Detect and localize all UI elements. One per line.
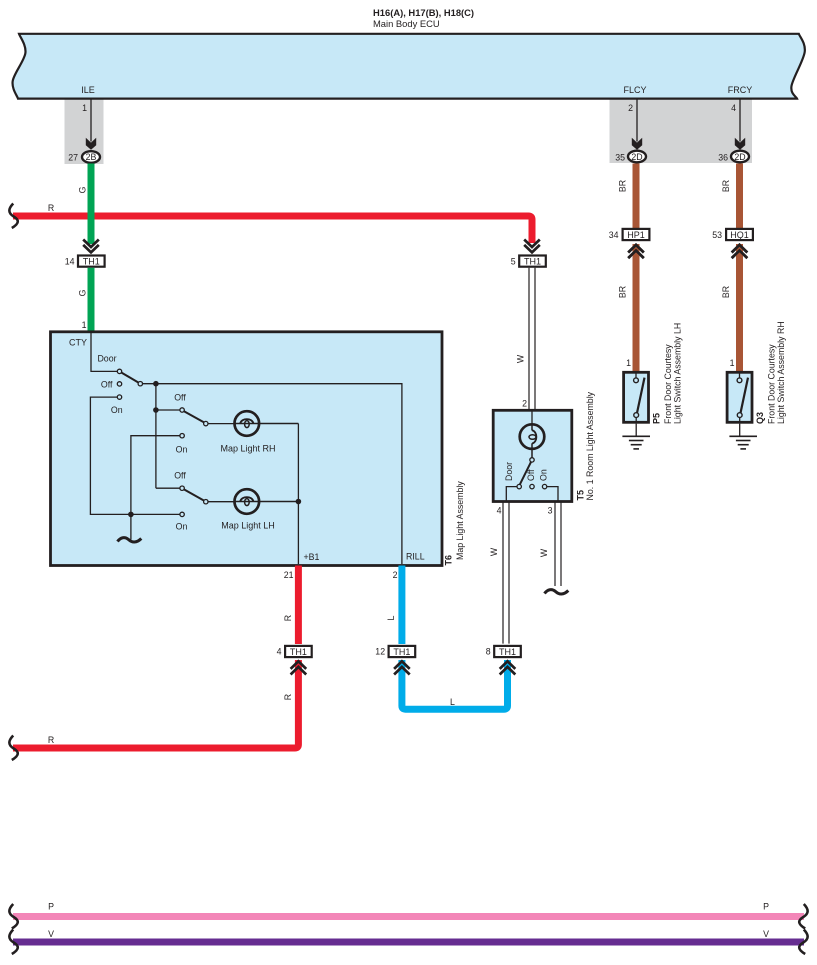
svg-text:Front Door Courtesy: Front Door Courtesy [663, 344, 673, 424]
chevron arrow into 5 TH1 [524, 240, 540, 253]
wire R red horizontal top [13, 216, 532, 243]
chevron arrow up into 12 TH1 [394, 661, 410, 674]
chevron arrow up into 53 HQ1 [732, 245, 748, 258]
ground wire Q3 [739, 424, 741, 437]
svg-text:Map Light LH: Map Light LH [221, 521, 275, 531]
wire R red from +B1 to 4 TH1 [295, 566, 302, 645]
svg-text:L: L [450, 697, 455, 707]
internal ground squiggle [118, 538, 142, 542]
svg-text:R: R [283, 615, 293, 621]
svg-text:R: R [48, 203, 54, 213]
ground symbol Q3 [729, 436, 757, 449]
svg-text:+B1: +B1 [304, 552, 320, 562]
P5 courtesy switch box [624, 372, 649, 422]
svg-text:FLCY: FLCY [623, 85, 646, 95]
svg-text:G: G [78, 186, 88, 193]
wire crossing: green over red [88, 212, 95, 220]
pin 4 FRCY wire [731, 99, 745, 150]
svg-text:4: 4 [497, 506, 502, 516]
component label T5 No.1 Room Light Assembly [576, 391, 596, 500]
svg-text:12: 12 [375, 647, 385, 657]
svg-text:HP1: HP1 [627, 230, 645, 240]
svg-text:53: 53 [712, 230, 722, 240]
chevron arrow up into 34 HP1 [628, 245, 644, 258]
svg-text:1: 1 [626, 358, 631, 368]
wire On contact to pin 3 [547, 487, 558, 502]
CTY switch input wire [91, 332, 117, 371]
svg-text:G: G [78, 289, 88, 296]
svg-text:On: On [176, 522, 188, 532]
redraw chevron over brown wire [628, 245, 644, 258]
lamp room light [520, 424, 545, 458]
splice 5 TH1 [511, 256, 546, 267]
Main Body ECU band [13, 34, 805, 99]
svg-text:5: 5 [511, 257, 516, 267]
wire BR brown from HP1 to P5 [633, 244, 640, 371]
T5 No.1 Room Light Assembly box [493, 410, 572, 501]
svg-text:2D: 2D [734, 152, 745, 162]
Q3 courtesy switch box [727, 372, 752, 422]
svg-text:TH1: TH1 [524, 257, 541, 267]
svg-text:W: W [539, 548, 549, 557]
wire P pink bottom [13, 913, 804, 920]
svg-text:Q3: Q3 [755, 412, 765, 424]
svg-text:8: 8 [486, 647, 491, 657]
wire break squiggle left of P [9, 904, 17, 929]
component label Q3 Front Door Courtesy Light Switch Assembly RH [755, 321, 786, 424]
connector oval 35 2D [615, 151, 646, 163]
switch P5 [634, 372, 645, 424]
wire Door contact to pin 4 [506, 487, 517, 502]
T6 Map Light Assembly box [51, 332, 443, 566]
svg-text:3: 3 [548, 506, 553, 516]
wire W pin3 stub [555, 502, 561, 587]
svg-text:Off: Off [526, 469, 536, 481]
svg-text:27: 27 [68, 153, 78, 163]
svg-text:2: 2 [522, 399, 527, 409]
switch pivot room light [530, 458, 534, 462]
svg-text:ILE: ILE [81, 85, 95, 95]
splice 4 TH1 [277, 646, 312, 657]
svg-text:BR: BR [618, 286, 628, 298]
junction node ground bus [128, 512, 134, 518]
chevron arrow up into 4 TH1 [291, 661, 307, 674]
svg-text:On: On [539, 469, 549, 481]
svg-text:14: 14 [65, 257, 75, 267]
svg-text:BR: BR [721, 286, 731, 298]
switch pivot [138, 382, 142, 386]
wire LH switch feed [156, 487, 180, 489]
component label T6 Map Light Assembly [444, 481, 466, 566]
svg-text:BR: BR [618, 180, 628, 192]
lamp Map Light LH [221, 489, 298, 530]
switch blade room light [520, 462, 531, 485]
svg-text:RILL: RILL [406, 552, 425, 562]
connector oval 27 2B [68, 151, 100, 163]
svg-text:1: 1 [730, 358, 735, 368]
svg-text:P5: P5 [652, 413, 662, 424]
svg-text:2D: 2D [631, 152, 642, 162]
switch blade LH [184, 489, 204, 500]
ground wire P5 [635, 424, 637, 437]
wire break squiggle left of V [9, 930, 17, 955]
junction node +B1 [296, 499, 302, 505]
wire W pin4 to 8 TH1 [503, 502, 509, 644]
splice 53 HQ1 [712, 229, 753, 240]
splice 8 TH1 [486, 646, 521, 657]
svg-text:No. 1 Room Light Assembly: No. 1 Room Light Assembly [585, 391, 595, 500]
junction node [153, 407, 159, 413]
switch contact Off T5 [530, 484, 534, 488]
svg-text:2B: 2B [86, 152, 97, 162]
switch contact On T5 [542, 484, 546, 488]
wire break squiggle left of R [9, 204, 17, 229]
wire to lamp switches [155, 384, 157, 489]
junction node [153, 381, 159, 387]
svg-text:1: 1 [82, 103, 87, 113]
wire break squiggle left of bottom R [9, 736, 17, 761]
wire BR brown from 2D(36) to 53 HQ1 [736, 164, 743, 229]
svg-text:2: 2 [393, 570, 398, 580]
switch blade RH [184, 411, 204, 422]
svg-text:On: On [111, 405, 123, 415]
wire V violet bottom [13, 939, 804, 946]
pin 2 FLCY wire [628, 99, 642, 150]
component label P5 Front Door Courtesy Light Switch Assembly LH [652, 323, 683, 424]
switch contact Off [117, 382, 121, 386]
svg-text:Off: Off [174, 393, 186, 403]
switch contact On LH [176, 512, 188, 531]
wire R red from 4 TH1 down and left [13, 660, 298, 748]
svg-text:W: W [516, 354, 526, 363]
wire pin2 to lamp [531, 410, 533, 424]
wire pivot RH to lamp [208, 423, 236, 425]
svg-text:P: P [763, 902, 769, 912]
svg-text:CTY: CTY [69, 338, 87, 348]
svg-text:Off: Off [174, 471, 186, 481]
svg-text:Front Door Courtesy: Front Door Courtesy [767, 344, 777, 424]
switch contact Door [117, 369, 121, 373]
svg-text:V: V [763, 929, 769, 939]
Main Body ECU header label [373, 7, 474, 29]
svg-text:Map Light Assembly: Map Light Assembly [455, 481, 465, 560]
svg-text:21: 21 [284, 570, 294, 580]
switch contact Off LH [180, 486, 184, 490]
wire break squiggle right of V [799, 930, 807, 955]
svg-text:On: On [176, 445, 188, 455]
svg-text:Door: Door [504, 462, 514, 481]
svg-text:H16(A), H17(B), H18(C): H16(A), H17(B), H18(C) [373, 7, 474, 18]
svg-text:W: W [489, 547, 499, 556]
connector oval 36 2D [718, 151, 749, 163]
switch pivot RH [204, 421, 208, 425]
chevron arrow up into 8 TH1 [500, 661, 516, 674]
svg-text:L: L [386, 615, 396, 620]
connector shading FLCY/FRCY [610, 99, 753, 163]
wire pivot LH to lamp [208, 501, 236, 503]
redraw chevron over brown wire [732, 245, 748, 258]
chevron arrow into 14 TH1 [83, 240, 99, 253]
switch contact Off RH [180, 408, 184, 412]
switch pivot LH [204, 500, 208, 504]
svg-text:34: 34 [609, 230, 619, 240]
svg-text:4: 4 [277, 647, 282, 657]
svg-text:Map Light RH: Map Light RH [220, 444, 275, 454]
svg-text:4: 4 [731, 103, 736, 113]
switch Q3 [737, 372, 748, 424]
svg-text:36: 36 [718, 153, 728, 163]
svg-text:TH1: TH1 [393, 647, 410, 657]
wire W from 5 TH1 to T5 room light [529, 268, 535, 410]
svg-text:Door: Door [97, 354, 116, 364]
svg-text:HQ1: HQ1 [730, 230, 749, 240]
svg-text:Off: Off [101, 380, 113, 390]
pin 1 ILE wire [82, 99, 96, 150]
switch contact Door T5 [517, 484, 521, 488]
svg-text:FRCY: FRCY [728, 85, 753, 95]
svg-text:P: P [48, 902, 54, 912]
svg-text:2: 2 [628, 103, 633, 113]
svg-text:Light Switch Assembly RH: Light Switch Assembly RH [776, 321, 786, 424]
wire BR brown from HQ1 to Q3 [736, 244, 743, 371]
wire G green from 2B to 14 TH1 [88, 164, 95, 245]
splice 14 TH1 [65, 256, 105, 267]
wire G green from 14 TH1 to T6 [88, 268, 95, 332]
wire main switch output [143, 384, 402, 564]
svg-text:TH1: TH1 [499, 647, 516, 657]
svg-text:R: R [48, 735, 54, 745]
svg-text:BR: BR [721, 180, 731, 192]
wire break squiggle pin3 [545, 590, 569, 594]
switch contact On + wire to ground bus [90, 395, 180, 515]
wire break squiggle right of P [799, 904, 807, 929]
svg-text:TH1: TH1 [290, 647, 307, 657]
svg-text:Main Body ECU: Main Body ECU [373, 18, 440, 29]
svg-text:V: V [48, 929, 54, 939]
ground symbol P5 [622, 436, 650, 449]
lamp Map Light RH [220, 411, 298, 453]
connector shading ILE [65, 99, 104, 164]
wire L blue from 12 TH1 to 8 TH1 [402, 660, 508, 709]
svg-text:T5: T5 [576, 490, 586, 501]
switch contact On RH + wire [131, 434, 188, 540]
splice 12 TH1 [375, 646, 415, 657]
wire L blue from RILL to 12 TH1 [398, 566, 405, 645]
svg-text:Light Switch Assembly LH: Light Switch Assembly LH [673, 323, 683, 424]
svg-text:1: 1 [82, 320, 87, 330]
svg-text:35: 35 [615, 153, 625, 163]
wire +B1 bus vertical [297, 424, 299, 565]
splice 34 HP1 [609, 229, 650, 240]
wire BR brown from 2D(35) to 34 HP1 [633, 164, 640, 229]
switch blade CTY [121, 373, 138, 383]
svg-text:R: R [283, 694, 293, 700]
wire RH switch feed [156, 409, 180, 411]
svg-text:TH1: TH1 [83, 257, 100, 267]
svg-text:T6: T6 [444, 555, 454, 566]
